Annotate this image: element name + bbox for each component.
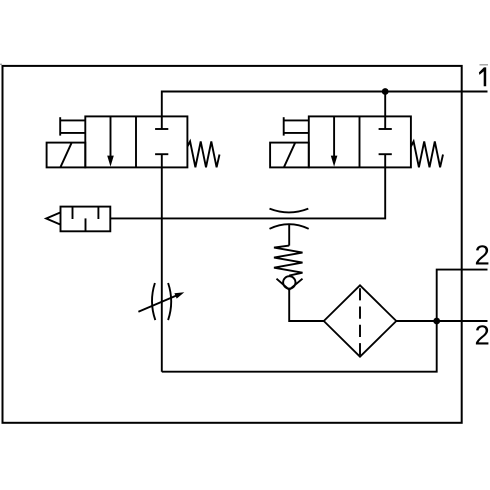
relief valve V3 seat: [277, 279, 303, 290]
wire: valve U2 top port stem to net 1: [384, 92, 386, 130]
valve U1 pilot / manual override: [60, 119, 85, 121]
valve U1 solenoid: [47, 143, 86, 168]
relief valve V3 spring: [274, 246, 303, 276]
junction dot on net 1: [382, 88, 389, 95]
valve U2 blocked port T bottom: [379, 153, 392, 155]
valve U2 return spring: [411, 141, 443, 167]
valve U2 pilot / manual override: [284, 119, 309, 121]
throttle right arc: [168, 283, 171, 320]
wire: junction down and left along bottom run: [162, 321, 437, 372]
valve U1 blocked port T top: [155, 128, 168, 130]
valve U1 (3/2 solenoid valve, left): [47, 116, 220, 167]
silencer U3: [46, 207, 110, 232]
valve U2 flow arrow: [333, 116, 335, 156]
svg-text:2: 2: [475, 240, 490, 271]
relief valve V3 (spring-loaded, on net from silencer line): [270, 209, 309, 290]
throttle left arc: [152, 283, 155, 320]
relief valve V3 lower seat arc: [270, 224, 309, 229]
throttle adjustment arrow: [138, 296, 176, 312]
svg-text:2: 2: [475, 319, 490, 350]
wire: net 1 rail from valve U1 top port to port 1: [162, 92, 488, 130]
relief valve V3 stem: [288, 224, 290, 245]
wire: valve U1 bottom port down through throttle to bottom run: [161, 154, 163, 372]
valve U1 blocked port T bottom: [155, 153, 168, 155]
wire: valve U2 bottom port down: [110, 154, 385, 218]
valve U2 (3/2 solenoid valve, right): [270, 116, 443, 167]
junction dot on port 2 net: [433, 318, 440, 325]
throttle valve V4 (adjustable restrictor): [138, 283, 184, 320]
wire: junction up to port 2 (upper): [437, 270, 488, 321]
valve U2 solenoid: [270, 143, 309, 168]
valve U1 flow arrow: [110, 116, 112, 156]
valve U2 blocked port T top: [379, 128, 392, 130]
node 1 (port label): [479, 67, 486, 86]
wire: relief valve to filter: [289, 290, 324, 321]
wire: filter output to port 2 (lower): [396, 320, 487, 322]
valve U2 body: [309, 116, 411, 167]
filter F1: [324, 285, 397, 356]
relief valve V3 ball: [283, 276, 295, 288]
valve U1 return spring: [187, 141, 219, 167]
valve U1 body: [85, 116, 187, 167]
relief valve V3 upper seat arc: [270, 209, 309, 213]
